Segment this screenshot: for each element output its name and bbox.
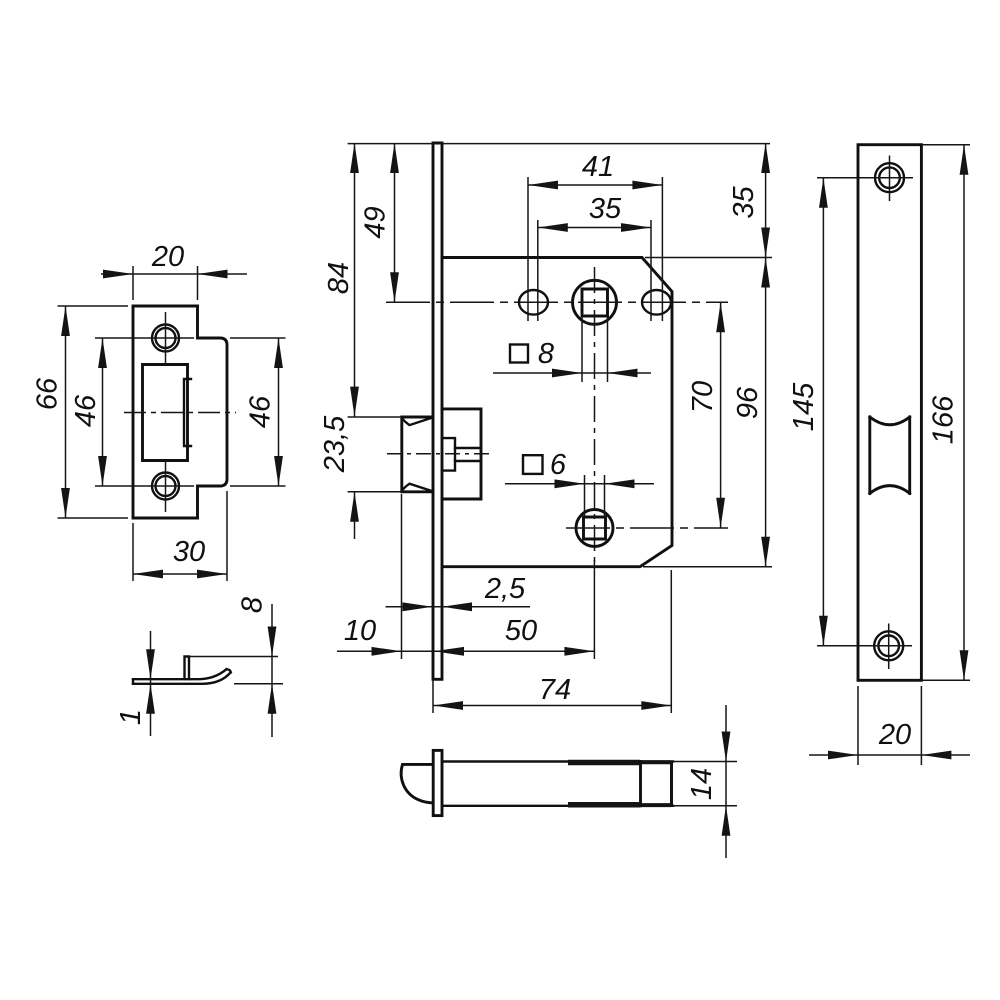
dimension 35 extension lines through ovals: [538, 220, 651, 321]
folded tongue tab: [185, 657, 190, 680]
dimension 35 right: arrows: [761, 143, 770, 173]
dimension 145: arrows: [819, 178, 828, 208]
square side extension lines up to dim 6: [585, 475, 605, 517]
screw hole bottom cross: [866, 624, 912, 670]
svg-text:66: 66: [32, 377, 64, 410]
dimension 23,5: extension lines: [348, 417, 402, 492]
spindle hub bottom: circle: [576, 510, 613, 547]
latch bar thick bottom segment right: [640, 803, 671, 807]
latch bar thick top segment: [568, 760, 640, 766]
dimension 66: line: [65, 306, 67, 518]
svg-text:23,5: 23,5: [319, 415, 351, 473]
dimension 35: arrows: [538, 223, 568, 232]
dimension 35: line: [538, 227, 651, 229]
dimension 30: extension lines: [133, 491, 227, 581]
dimension 1: arrows (outside): [146, 649, 155, 679]
svg-text:84: 84: [323, 262, 355, 294]
svg-text:49: 49: [360, 206, 392, 238]
svg-text:20: 20: [151, 241, 184, 273]
dimension 1: line: [150, 631, 152, 736]
square symbol for 8: [510, 345, 528, 363]
dimension 2,5: line: [386, 606, 531, 608]
dimension 35 right: line: [765, 143, 767, 258]
dimension 20: arrows (outside): [828, 751, 858, 760]
dimension 10 and 50: line: [337, 650, 594, 652]
dimension 46 right: line: [278, 338, 280, 486]
latch stem block: [442, 438, 455, 471]
latch bolt head: [402, 417, 433, 492]
dimension 41 extension lines through ovals: [528, 177, 662, 321]
svg-text:14: 14: [686, 768, 718, 800]
dimension 8: extension lines: [189, 657, 283, 684]
latch window with concave sides: [870, 417, 910, 493]
oval fixing hole left: [519, 290, 548, 315]
top extension line across (y=143): [348, 143, 770, 145]
dimension 10: arrow: [372, 647, 402, 656]
latch edge extension line down: [401, 494, 403, 659]
dimension 50: arrows: [434, 647, 464, 656]
spindle hub top: circle: [573, 280, 617, 324]
plate left end cap: [132, 679, 134, 684]
faceplate cross-section: [433, 750, 442, 815]
screw hole bottom centerline vertical: [165, 460, 167, 512]
VIEW D: faceplate front view (right): [788, 145, 970, 765]
dimension 74: arrows: [433, 701, 463, 710]
VIEW A: strike plate front view (left): [32, 241, 286, 581]
dimension 145: extension lines: [817, 178, 866, 646]
dimension 145: line: [822, 178, 824, 646]
screw hole top: [152, 325, 179, 352]
dimension 84: arrows: [350, 143, 359, 173]
faceplate outline: [858, 145, 921, 681]
dimension 6: line: [505, 483, 654, 485]
bent plate profile bottom line with upturned lip: [133, 672, 231, 684]
svg-text:46: 46: [70, 394, 102, 427]
dimension 166: line: [963, 145, 965, 681]
dimension 8: arrows (outside): [268, 627, 277, 657]
dimension 49: arrows: [390, 143, 399, 173]
dimension 6: arrows (outside converging): [555, 479, 585, 488]
dimension 66: extension lines: [58, 306, 129, 518]
dimension 49: line: [394, 143, 396, 302]
screw hole bottom: [874, 631, 903, 660]
dimension 46 left: line: [102, 338, 104, 486]
dimension 66: arrows: [61, 306, 70, 336]
spindle center extension line down: [593, 560, 595, 659]
svg-text:41: 41: [582, 151, 614, 183]
svg-text:46: 46: [245, 395, 277, 428]
latch bolt bevel top: [402, 418, 432, 425]
dimension 70: line: [720, 302, 722, 528]
latch bar divider line: [639, 762, 642, 806]
dimension 46 right: extension lines: [230, 338, 286, 486]
svg-text:50: 50: [505, 615, 537, 647]
dimension 70: arrows: [716, 302, 725, 332]
bent plate profile top line: [133, 669, 227, 679]
svg-text:35: 35: [728, 186, 760, 219]
latch bar right end cap: [670, 762, 673, 806]
oval fixing hole right: [642, 290, 671, 315]
dimension 41: line: [528, 184, 662, 186]
dimension 14: extension lines: [673, 762, 737, 806]
dimension 30: arrows: [133, 570, 163, 579]
latch bolt rounded head: [401, 764, 433, 803]
dimension 46 left: extension lines through screw centers: [95, 338, 194, 486]
svg-text:35: 35: [589, 193, 622, 225]
dimension 74: extension lines: [433, 570, 671, 713]
dimension 14: arrows (outside): [722, 732, 731, 762]
dimension 96: line: [765, 258, 767, 567]
dimension 46 left: arrows: [98, 338, 107, 368]
dimension 84: line: [354, 143, 356, 417]
faceplate strip edge-on: [433, 143, 442, 679]
lock case outline with chamfered right corners: [442, 258, 672, 567]
svg-text:6: 6: [550, 449, 567, 481]
svg-text:145: 145: [788, 382, 820, 431]
screw hole top: [875, 163, 904, 192]
latch bar thick top segment right: [640, 760, 671, 764]
latch bar top edge: [444, 760, 673, 762]
dimension 20: extension lines: [133, 266, 198, 300]
horizontal centerline upper spindle: [386, 301, 728, 303]
svg-text:2,5: 2,5: [484, 573, 526, 605]
spindle hub top: square 8mm: [582, 289, 608, 316]
svg-text:74: 74: [539, 674, 571, 706]
dimension 20: line: [101, 273, 247, 275]
strike plate outline: [133, 306, 227, 518]
dimension 14: line: [725, 705, 727, 858]
extension lines right of case (top edge, bottom edge): [643, 258, 772, 567]
dimension 2,5: arrows (outside converging): [403, 602, 433, 611]
square symbol for 6: [523, 455, 543, 474]
dimension 8: line: [271, 604, 273, 737]
screw hole top cross: [866, 156, 913, 202]
svg-text:8: 8: [237, 597, 269, 613]
latch spring lines: [455, 448, 481, 461]
dimension 20: arrows (outside): [103, 270, 133, 279]
VIEW B: strike plate side view (bottom left): [115, 597, 283, 737]
svg-text:96: 96: [732, 386, 764, 419]
square side extension lines down to dim 8: [582, 316, 608, 382]
vertical centerline through spindles: [594, 267, 596, 563]
spindle hub bottom: square 6mm: [584, 517, 606, 539]
dimension 8: line: [493, 372, 651, 374]
horizontal centerline lower spindle: [566, 527, 728, 529]
latch bar bottom edge: [444, 805, 673, 807]
svg-text:20: 20: [878, 719, 911, 751]
svg-text:166: 166: [928, 395, 960, 444]
latch housing box: [442, 409, 481, 499]
dimension 166: arrows: [960, 145, 969, 175]
svg-text:8: 8: [538, 338, 554, 370]
lip tip cap: [227, 669, 231, 672]
dimension 74: line: [433, 705, 671, 707]
dimension 23,5: bottom arrow line (outside): [354, 492, 356, 539]
dimension 166: extension lines: [921, 145, 970, 681]
dimension 20: line: [809, 754, 970, 756]
latch hole rectangle: [143, 365, 188, 461]
horizontal centerline of plate: [124, 412, 236, 414]
screw hole top centerline vertical: [165, 312, 167, 364]
svg-text:30: 30: [173, 536, 205, 568]
dimension 20: extension lines: [858, 686, 921, 765]
folded tab line inside hole: [184, 379, 191, 446]
screw hole bottom: [152, 473, 179, 500]
svg-text:70: 70: [687, 381, 719, 413]
dimension 96: arrows: [761, 258, 770, 288]
dimension 46 right: arrows: [274, 338, 283, 368]
latch bar thick bottom segment: [568, 802, 640, 808]
svg-text:1: 1: [115, 709, 147, 725]
latch centerline: [387, 453, 490, 455]
dimension 8: arrows (outside converging): [552, 369, 582, 378]
dimension 41: arrows: [528, 181, 558, 190]
VIEW E: latch bolt side view (bottom center): [401, 705, 737, 858]
latch bolt bevel bottom: [402, 484, 432, 491]
svg-text:10: 10: [344, 615, 376, 647]
dimension 30: line: [133, 573, 227, 575]
VIEW C: lock body front view (center): [319, 143, 772, 713]
